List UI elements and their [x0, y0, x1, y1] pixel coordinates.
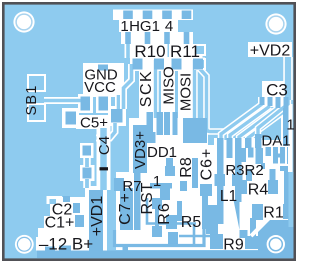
etched zone under C3	[258, 97, 293, 146]
svg-text:R11: R11	[170, 42, 200, 61]
wire from SB1 to GND pad	[44, 97, 88, 104]
wires below SCK/MISO/MOSI bars	[144, 112, 178, 143]
wire C5 right pad to C4	[96, 123, 115, 138]
wire bar E	[255, 134, 262, 148]
resistor R11 etched zone	[169, 44, 203, 58]
right edge zones	[288, 145, 294, 227]
GND/VCC label box	[83, 63, 124, 97]
wire diagonal C3 to bar A	[221, 104, 262, 140]
svg-text:SB1: SB1	[24, 84, 40, 115]
svg-text:C4: C4	[96, 136, 113, 155]
bottom-left label block (C1 C2 12V)	[36, 186, 107, 251]
wire DA1 to R1 right pad	[284, 169, 290, 206]
svg-text:C6+: C6+	[199, 148, 216, 181]
wire bar C	[227, 138, 233, 158]
connector HG1 pads	[123, 11, 191, 45]
wire right of GND box down	[124, 64, 132, 109]
wire C4 column under label	[97, 126, 111, 190]
svg-text:VD3+: VD3+	[132, 131, 149, 169]
12V supply pads	[45, 246, 71, 252]
corner copper block bottom-right	[251, 220, 294, 258]
button SB1 footprint	[28, 75, 45, 121]
IC DA1 SOIC pads	[241, 147, 293, 171]
svg-text:R5: R5	[181, 214, 202, 231]
svg-text:C1+: C1+	[45, 215, 75, 232]
svg-text:R6: R6	[156, 202, 173, 224]
node GND/VCC pads	[81, 65, 109, 111]
wire HG1 pin1 to R10	[125, 44, 132, 58]
svg-text:1: 1	[286, 117, 294, 134]
wire left of RST	[134, 170, 141, 230]
wire bar B to L1	[235, 138, 242, 202]
mounting hole bottom-right	[267, 235, 285, 253]
resistor R11 pads	[172, 59, 204, 70]
polarity dash under C4	[100, 167, 109, 170]
svg-text:C5+: C5+	[80, 115, 108, 132]
resistor R1 pads	[250, 204, 292, 238]
wire diagonal C3 to bar D	[248, 110, 286, 141]
svg-text:R1: R1	[263, 205, 284, 222]
svg-text:1: 1	[120, 18, 128, 35]
mounting hole bottom-left	[15, 235, 34, 254]
svg-text:R4: R4	[248, 182, 269, 199]
svg-text:VCC: VCC	[84, 79, 116, 96]
svg-text:MISO: MISO	[161, 66, 178, 104]
resistors R3 R2 pads	[215, 174, 243, 186]
wire SCK white bar	[139, 57, 153, 119]
diode VD1 trace bar	[89, 190, 103, 251]
wire to L1 mass	[179, 235, 217, 238]
svg-text:SCK: SCK	[138, 70, 155, 107]
svg-text:L1: L1	[220, 188, 237, 205]
capacitor C4 footprint	[80, 143, 95, 188]
wire bar D	[245, 138, 252, 148]
wire +VD2 pads down and east to DA1 zone	[200, 69, 226, 140]
wire below R5	[193, 224, 196, 244]
wire along right edge from +VD2	[283, 57, 293, 100]
wire bar A to L1	[217, 138, 224, 224]
connector HG1 etched zone	[113, 10, 193, 45]
capacitor C5 pads	[66, 109, 123, 125]
GND pad cutout	[78, 94, 93, 113]
wire diagonal C3 to bar B	[239, 108, 278, 140]
capacitor C1 plus pad	[75, 215, 84, 227]
capacitor C6 pads	[200, 184, 212, 222]
svg-text:4: 4	[165, 18, 173, 35]
svg-text:C7+: C7+	[117, 192, 134, 225]
wire around R6	[147, 198, 196, 224]
diode VD2 pads	[194, 44, 206, 70]
capacitor C3 label box	[262, 81, 291, 97]
svg-text:R3R2: R3R2	[225, 162, 263, 179]
resistor R10 etched zone	[132, 44, 168, 58]
wire diagonal C3 to bar C	[230, 106, 270, 140]
resistor R10 pads	[133, 59, 165, 70]
svg-text:RST: RST	[139, 182, 156, 214]
wire beside DA1 pin1	[283, 108, 289, 146]
resistor R7 pad	[114, 178, 124, 191]
mounting hole top-right	[265, 13, 286, 34]
svg-text:R10: R10	[134, 42, 165, 61]
wire bottom loop	[115, 222, 205, 246]
mounting hole top-left	[13, 11, 34, 32]
ground rail along bottom	[37, 251, 258, 259]
VCC pad cutout	[96, 94, 111, 113]
wire MISO white bar	[161, 57, 175, 119]
wire right of MOSI bar	[191, 60, 197, 118]
svg-text:DA1: DA1	[261, 133, 290, 150]
svg-text:+VD1: +VD1	[89, 196, 106, 237]
svg-text:C3: C3	[266, 81, 288, 100]
wire GND box to C5	[115, 95, 122, 109]
wire between SCK and MISO bars	[152, 60, 158, 118]
resistor R9 pads	[210, 234, 258, 249]
svg-text:DD1: DD1	[147, 144, 177, 161]
wire diagonal right edge to bar E	[258, 100, 288, 136]
resistor R5 left pad	[166, 215, 177, 229]
svg-text:R8: R8	[178, 157, 195, 178]
capacitor C5 pad cutouts	[62, 106, 126, 129]
capacitor C6 copper block	[183, 118, 207, 143]
resistor R4 pads	[240, 169, 278, 194]
diode VD3 trace bar	[133, 125, 147, 173]
inductor L1 copper mass	[202, 205, 218, 234]
wire between R6 and R5	[168, 201, 182, 246]
+VD2 label box	[248, 42, 292, 57]
svg-text:–12 B+: –12 B+	[39, 235, 93, 254]
svg-text:R9: R9	[223, 237, 244, 254]
right etched zone around DA1	[208, 138, 290, 250]
capacitor C2 pads	[63, 196, 80, 213]
wire bar B elbow to R9	[234, 200, 248, 238]
svg-text:MOSI: MOSI	[178, 73, 195, 111]
wires under C3 box	[262, 97, 286, 109]
capacitor C7 trace bar	[120, 188, 133, 230]
R10/R11 pad cutout band	[130, 58, 205, 72]
junction loop to rail	[123, 245, 129, 251]
svg-text:HG1: HG1	[129, 18, 160, 35]
resistor R6 pads	[152, 198, 162, 237]
wire into C2 block	[48, 198, 62, 205]
svg-text:+VD2: +VD2	[250, 43, 291, 60]
central etched zone around DD1	[116, 118, 208, 250]
wire MOSI white bar	[178, 57, 192, 119]
IC DD1 pads and wires	[150, 158, 198, 200]
